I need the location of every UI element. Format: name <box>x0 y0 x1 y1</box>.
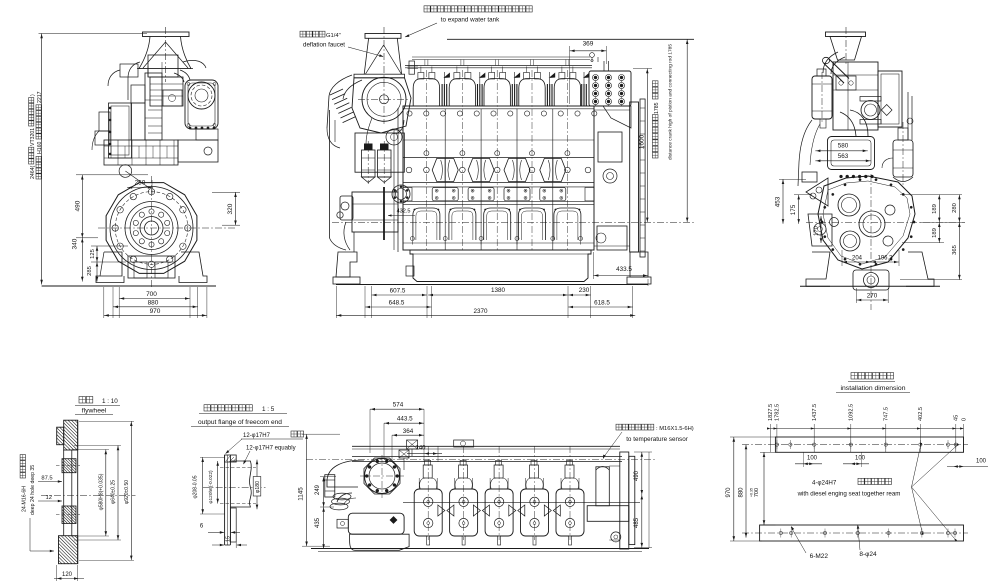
side view: deflation note <box>300 31 325 37</box>
rear view: left contour curves <box>798 120 812 186</box>
svg-text:196.3: 196.3 <box>877 256 893 262</box>
svg-text:453: 453 <box>775 196 782 207</box>
svg-text:distance crank high of pistion: distance crank high of pistion and conne… <box>668 44 674 160</box>
side view: bottom dim row2 618.5 <box>568 306 633 308</box>
svg-text:1600: 1600 <box>639 134 646 149</box>
svg-text:574: 574 <box>393 402 404 409</box>
front view: center duct <box>145 73 162 140</box>
side view: dim line 1785 <box>686 39 688 222</box>
svg-text:flywheel: flywheel <box>82 408 107 415</box>
side view: right end plate <box>630 102 639 252</box>
rear view: elbow pipe <box>823 52 838 73</box>
side view: flex hose ladder <box>330 89 343 95</box>
svg-text:to temperature sensor: to temperature sensor <box>626 436 688 443</box>
flange detail: dim phi208 <box>202 457 204 514</box>
front view: bottom dim 880 <box>113 306 198 308</box>
front view: upper body extra lines <box>147 66 149 77</box>
flywheel detail: dim phi580 <box>105 450 107 537</box>
svg-text:1145: 1145 <box>298 487 305 501</box>
front view: right engine mount boss <box>178 140 218 162</box>
side view: bottom dim row1 1380 <box>428 294 568 296</box>
svg-text:1380: 1380 <box>491 287 506 294</box>
svg-text:189: 189 <box>932 204 938 214</box>
side view: filter panel <box>355 133 404 172</box>
front view: heat exchanger bolts <box>187 83 190 86</box>
svg-text:2217: 2217 <box>37 91 43 103</box>
bottom view: bracket above flange <box>399 450 409 458</box>
svg-text:to expand water tank: to expand water tank <box>441 17 500 24</box>
svg-text:deflation faucet: deflation faucet <box>303 42 345 49</box>
front view: left cooler panel <box>109 103 132 158</box>
flywheel detail: left note leader <box>29 518 31 551</box>
svg-text:285: 285 <box>87 266 93 276</box>
front view: heat exchanger circle <box>188 82 215 109</box>
bottom view: right end plates <box>620 452 629 549</box>
flywheel detail: bolt section lower <box>62 506 76 524</box>
flywheel detail: bolt section upper <box>62 459 76 473</box>
flywheel detail: rim lip <box>57 427 64 445</box>
svg-text:700: 700 <box>146 291 157 298</box>
side view: end plate striping <box>640 107 645 109</box>
flange detail: dim phi180 boxed <box>256 460 258 510</box>
svg-text:433.5: 433.5 <box>616 266 632 273</box>
side view: pan rail bolt row <box>410 237 414 241</box>
svg-text:270: 270 <box>867 293 878 300</box>
rear view: filter pipes <box>882 158 893 168</box>
rear view: dim 189 189 <box>938 195 940 243</box>
svg-text:deep 24 hole deep 35: deep 24 hole deep 35 <box>30 465 36 515</box>
svg-text:435: 435 <box>315 517 321 528</box>
side view: pan drain <box>406 266 414 276</box>
side view: panel riser pipe <box>603 61 605 71</box>
svg-text:1 : 10: 1 : 10 <box>102 398 118 405</box>
svg-text:170: 170 <box>814 226 820 236</box>
side view: hook level line 1785 extension <box>447 38 694 40</box>
bottom view: dim 1145 <box>306 434 308 546</box>
side view: hand hole cover rails <box>403 157 594 159</box>
svg-text:24-M16-6H: 24-M16-6H <box>22 486 28 512</box>
flywheel detail: dim phi920 <box>130 421 132 560</box>
flywheel detail: dim phi640 <box>117 446 119 541</box>
front view: flywheel centerlines <box>151 176 153 288</box>
side view: pump pipes <box>344 222 350 250</box>
svg-text:230: 230 <box>579 287 590 294</box>
rear view: gear case bolts <box>913 221 915 223</box>
bottom view: fuel rail <box>352 456 622 458</box>
front view: bottom dim 700 <box>119 298 190 300</box>
svg-text:1782.5: 1782.5 <box>775 404 781 421</box>
svg-text:1827.5: 1827.5 <box>768 404 774 421</box>
svg-text:φ208-0.05: φ208-0.05 <box>193 475 199 498</box>
flange detail: note leader <box>226 439 243 454</box>
flange detail: flange section <box>224 455 226 545</box>
svg-text:VT3201: VT3201 <box>30 128 36 146</box>
svg-text:443.5: 443.5 <box>397 416 413 423</box>
rear view: dim 280 365 <box>958 195 960 280</box>
svg-text:364: 364 <box>403 428 414 435</box>
side view: pad row <box>403 186 594 188</box>
bottom view: left bracket small <box>337 519 348 528</box>
rear view: turbo body <box>833 62 878 130</box>
svg-text:4-φ24H7: 4-φ24H7 <box>812 480 837 487</box>
side view: bottom dim row1 607.5 <box>372 294 428 296</box>
front view: overall height dim 2464 line <box>41 34 43 285</box>
install view: top rail holes <box>775 443 778 446</box>
flange detail: hub step below <box>230 508 236 542</box>
svg-text:0: 0 <box>961 418 967 421</box>
bottom view: sensor note cjk <box>616 424 654 430</box>
front view: air cooler upper box <box>148 55 178 77</box>
svg-text:100: 100 <box>807 456 818 462</box>
bottom view: dim 490 485 <box>641 452 643 548</box>
svg-text:402.5: 402.5 <box>918 407 924 421</box>
rear view: right pipe and valve <box>907 92 909 140</box>
svg-text:φ580H8(+0.035): φ580H8(+0.035) <box>98 473 104 510</box>
svg-text:+0.35: +0.35 <box>750 488 754 497</box>
svg-text:1785: 1785 <box>654 102 660 114</box>
install view: dim 700 <box>763 452 765 525</box>
flange detail: dim 15 <box>212 544 224 546</box>
side view: water pipes left <box>327 128 340 148</box>
install view: dim 970 <box>733 437 735 541</box>
rear view: canister bottom fitting <box>820 119 826 128</box>
install view: dim 880 <box>745 445 747 538</box>
side view: crank centerline <box>332 221 695 223</box>
flywheel detail: title <box>79 397 93 404</box>
install view: ordinate ruler line <box>770 428 963 430</box>
svg-text:1092.5: 1092.5 <box>849 404 855 421</box>
bottom view: jugs <box>414 489 442 536</box>
side view: outlet riser right of funnel <box>409 61 415 74</box>
bottom view: pto flange <box>365 459 400 494</box>
rear view: funnel <box>826 32 866 37</box>
side view: deflation leader <box>348 47 383 57</box>
side view: bottom dim row2 648.5 <box>365 306 432 308</box>
side view: front housing band <box>397 108 399 252</box>
front view: bottom bracket <box>128 256 175 278</box>
svg-text:120: 120 <box>62 572 73 578</box>
side view: expansion tank note <box>424 6 532 12</box>
side view: rotated note 1785 cjk <box>652 115 658 158</box>
rear view: dim 175 <box>798 195 800 224</box>
svg-text:125: 125 <box>90 249 96 259</box>
svg-text:320: 320 <box>227 203 234 214</box>
bottom view: base lines <box>311 548 649 550</box>
bottom view: volute housing <box>327 460 364 487</box>
side view: gauge on top <box>590 53 595 58</box>
svg-text:485: 485 <box>634 517 640 528</box>
front view: left foot <box>96 252 124 283</box>
front view: flywheel housing polygon <box>106 183 197 274</box>
side view: fuel filters <box>362 150 376 177</box>
front view: rotated height label col2 <box>36 156 41 179</box>
rear view: dim 170 <box>820 216 822 243</box>
svg-text:250: 250 <box>135 180 146 187</box>
side view: water pump volute <box>386 129 402 145</box>
side view: main block outline <box>403 106 594 250</box>
svg-text:φ180: φ180 <box>255 481 261 493</box>
side view: instrument panel <box>589 71 631 106</box>
bottom view: oil gallery line <box>403 501 640 503</box>
side view: mid bolt row <box>424 151 429 156</box>
rear view: intercooler block <box>878 71 902 127</box>
front view: left bracket <box>99 112 110 131</box>
svg-text:with diesel enging seat togeth: with diesel enging seat together ream <box>797 491 901 498</box>
svg-text:490: 490 <box>634 470 640 481</box>
side view: dark front bar <box>383 187 385 240</box>
front view: flywheel circles <box>110 187 193 270</box>
side view: upper pipe second <box>412 56 590 58</box>
rear view: mid panel <box>828 137 875 170</box>
side view: rail circles at cylinder centers <box>424 167 430 173</box>
svg-text:648.5: 648.5 <box>389 300 405 307</box>
bottom view: breather <box>407 440 418 449</box>
side view: fuel pump block <box>352 192 398 232</box>
svg-text:249: 249 <box>315 484 321 495</box>
front view: right foot <box>179 252 207 283</box>
svg-text:installation dimension: installation dimension <box>841 385 906 392</box>
side view: fan housing <box>354 74 405 78</box>
side view: expansion tank leader <box>405 23 437 37</box>
side view: panel bracket <box>603 106 631 128</box>
svg-text:: M16X1.5-6H): : M16X1.5-6H) <box>656 426 694 432</box>
svg-text:6-M22: 6-M22 <box>810 553 829 560</box>
side view: ground line <box>336 284 648 286</box>
install view: leader fan <box>912 447 921 488</box>
flange detail: sleeve <box>230 461 251 507</box>
svg-text:607.5: 607.5 <box>390 288 406 295</box>
flange detail: title cjk <box>204 405 252 411</box>
svg-text:H160: H160 <box>37 141 43 154</box>
side view: cylinder centerlines <box>425 70 427 252</box>
bottom view: pan bottom left <box>350 534 410 550</box>
front view: dim 125-285 line <box>96 246 98 282</box>
flange detail: bolt holes dashed <box>220 467 256 469</box>
svg-text:output flange of freecom end: output flange of freecom end <box>198 419 282 426</box>
flywheel detail: rim top flange hatched <box>64 420 78 450</box>
svg-text:1437.5: 1437.5 <box>812 404 818 421</box>
rear view: diamond mark <box>881 105 892 116</box>
front view: dim 320 <box>235 192 237 225</box>
rear view: crank pulley <box>853 270 889 290</box>
svg-text:189: 189 <box>932 228 938 238</box>
bottom view: wide box right <box>587 506 629 522</box>
svg-text:880: 880 <box>148 299 159 306</box>
flange detail: centerline <box>203 486 266 488</box>
rear view: exhaust outlet round <box>861 101 880 120</box>
front view: flywheel bolt circle outer <box>185 225 191 231</box>
svg-text:12-φ17H7: 12-φ17H7 <box>243 433 271 439</box>
svg-text:369: 369 <box>583 41 594 48</box>
flywheel detail: web <box>63 450 65 536</box>
front view: extension lines bottom <box>103 287 105 318</box>
svg-text:563: 563 <box>838 153 849 160</box>
svg-text:12-φ17H7 equably: 12-φ17H7 equably <box>246 446 296 452</box>
svg-text:2370: 2370 <box>473 308 488 315</box>
rear view: bolt dot row <box>840 175 843 178</box>
side view: rocker oil pipe <box>405 65 592 67</box>
svg-text:φ120h6(-0.022): φ120h6(-0.022) <box>208 470 214 504</box>
front view: dim 250 <box>119 165 132 178</box>
install view: bottom rail <box>760 525 964 541</box>
svg-text:490: 490 <box>74 200 81 211</box>
front view: flywheel bolt circle inner <box>165 231 170 236</box>
rear view: gear case outline <box>818 176 915 269</box>
svg-text:G1/4": G1/4" <box>326 33 341 39</box>
svg-text:700: 700 <box>754 488 760 497</box>
rear view: dim 270 <box>856 299 888 301</box>
svg-text:747.5: 747.5 <box>884 407 890 421</box>
svg-text:340: 340 <box>71 238 78 249</box>
side view: deck bolt row <box>407 111 412 116</box>
install view: bottom rail holes <box>779 531 782 534</box>
rear view: feet <box>806 252 830 286</box>
rear view: outlet elbow <box>850 110 868 136</box>
bottom view: small pulley <box>611 532 621 542</box>
side view: pto flange left <box>392 185 410 203</box>
front view: body band <box>104 140 178 165</box>
svg-text:φ920±0.50: φ920±0.50 <box>124 480 130 504</box>
install view: title cjk <box>851 373 894 380</box>
bottom view: top outline <box>352 445 620 447</box>
rear view: left pump <box>808 214 832 246</box>
bottom view: top fittings <box>454 440 474 447</box>
svg-text:432.5: 432.5 <box>397 209 411 215</box>
side view: hand hole pointed ovals <box>432 159 458 182</box>
svg-text:8-φ24: 8-φ24 <box>859 551 877 558</box>
rear view: gear circles <box>838 194 860 216</box>
rear view: air cleaner canister <box>812 76 832 119</box>
svg-text:618.5: 618.5 <box>594 300 610 307</box>
bottom view: jug couplings <box>438 505 445 516</box>
bottom view: outlet pipe end <box>325 475 335 497</box>
flywheel detail: centerline <box>41 495 136 497</box>
side view: block vertical joints <box>444 109 446 250</box>
svg-text:100: 100 <box>855 456 866 462</box>
rear view: inlet diagonal pipe <box>824 63 845 83</box>
svg-text:580: 580 <box>838 143 849 150</box>
side view: dim 1600 <box>646 69 648 223</box>
bottom view: dim 249 435 <box>323 477 325 549</box>
front view: turbo inlet elbow <box>180 70 190 80</box>
rear view: centerlines <box>870 174 872 310</box>
flange detail: dim phi120h6 <box>217 461 219 504</box>
svg-text:365: 365 <box>952 245 958 255</box>
svg-text:100: 100 <box>976 459 987 465</box>
svg-text:15: 15 <box>226 536 232 542</box>
svg-text:): ) <box>30 94 36 96</box>
svg-text:2464(: 2464( <box>30 165 36 179</box>
svg-text:970: 970 <box>726 487 732 498</box>
front view: bottom dim 970 <box>104 314 207 316</box>
side view: left edge down <box>329 110 331 238</box>
rear view: dim 204 196.3 <box>842 261 899 263</box>
rear view: fuel filter cylinder <box>893 140 913 177</box>
install view: top rail <box>775 437 963 452</box>
rear view: dim 453 <box>782 179 784 224</box>
side view: cylinder head domes <box>413 79 439 107</box>
side view: bottom dim row1 230 <box>568 294 591 296</box>
flange detail: flange top cap hatched <box>225 455 237 462</box>
svg-text:970: 970 <box>150 308 161 315</box>
side view: funnel <box>365 34 401 39</box>
side view: crankcase side covers <box>403 203 594 205</box>
bottom view: sensor leader <box>603 432 622 458</box>
rear view: left brackets <box>802 172 817 182</box>
front view: dim 490-340 line <box>81 175 83 282</box>
svg-text:175: 175 <box>790 204 797 215</box>
bottom view: oil cooler box <box>348 513 404 534</box>
side view: injector clusters <box>441 84 443 106</box>
side view: bottom extension lines <box>335 286 337 318</box>
svg-text:45: 45 <box>954 415 960 421</box>
side view: bottom dim row3 2370 <box>336 314 635 316</box>
side view: oil pan <box>410 250 591 282</box>
side view: right end accessories <box>598 132 622 162</box>
rear view: right ext lines <box>900 194 962 196</box>
side view: front foot <box>336 252 357 277</box>
front view: funnel <box>143 32 190 37</box>
front view: small pipes upper <box>128 62 140 78</box>
svg-text:204: 204 <box>852 256 863 262</box>
flywheel detail: bottom flange hatched <box>59 536 78 564</box>
side view: governor circles <box>341 202 349 210</box>
svg-text:φ640±0.25: φ640±0.25 <box>111 480 117 504</box>
svg-text:1 : 5: 1 : 5 <box>262 406 275 413</box>
svg-text:87.5: 87.5 <box>41 476 52 482</box>
svg-text:880: 880 <box>738 487 744 498</box>
svg-text:12: 12 <box>45 495 51 501</box>
side view: right foot <box>630 252 648 277</box>
svg-text:280: 280 <box>952 203 958 213</box>
bottom view: elbow bellows <box>337 493 352 502</box>
side view: fan circle <box>362 77 406 121</box>
front view: heat exchanger box <box>185 80 218 129</box>
bottom view: sensor filter cylinder <box>596 467 609 506</box>
